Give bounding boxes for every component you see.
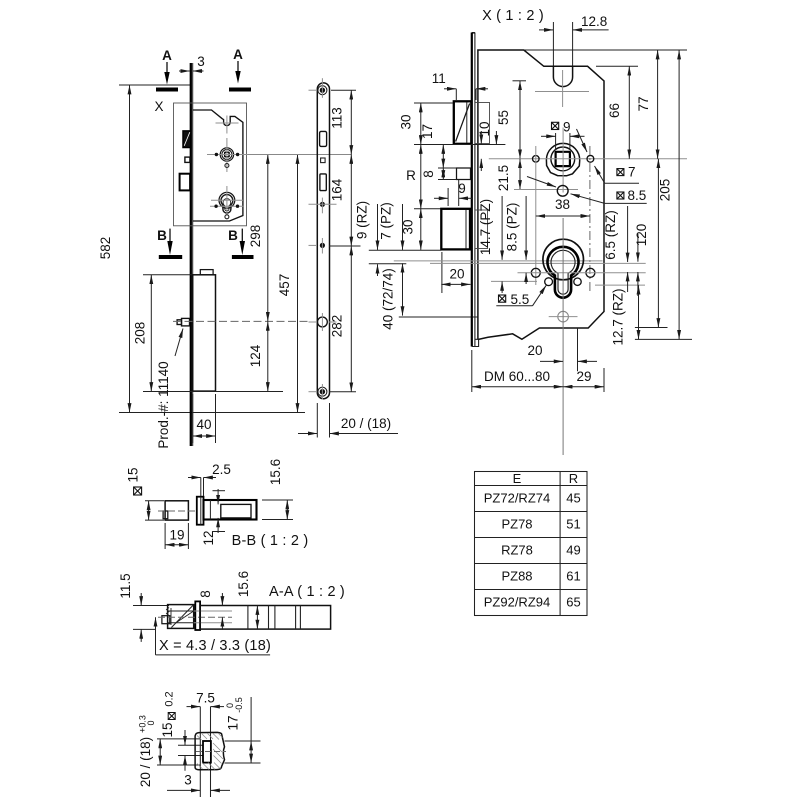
hub side dots [215,153,218,156]
cylinder ring [548,247,579,298]
svg-text:51: 51 [566,517,580,532]
cylinder crosshair [210,186,244,215]
dim 113 [330,90,352,154]
svg-text:20: 20 [449,267,464,282]
cylinder euro profile outer [543,239,584,280]
svg-text:15.6: 15.6 [236,571,251,597]
svg-text:30: 30 [401,219,416,234]
bottom extension line of rod [143,391,283,393]
svg-text:R: R [569,471,578,486]
svg-text:A: A [162,48,172,63]
dim 19 [165,523,188,549]
dim 55 [496,81,526,159]
flange A-A [195,601,200,630]
svg-text:208: 208 [133,322,148,345]
svg-text:B: B [228,228,238,243]
svg-text:8.5: 8.5 [628,188,647,203]
svg-text:9: 9 [563,120,571,135]
follower hole in section [221,504,251,518]
dim 30 upper [399,103,454,145]
dim 2.5 [188,462,231,496]
extension line bottom hole [329,391,356,393]
left screw centerline [535,146,537,285]
svg-text:3: 3 [184,773,192,788]
bottom screw hole [318,387,327,396]
svg-text:298: 298 [248,225,263,248]
svg-text:0: 0 [146,720,156,725]
hidden lines right of latch [194,610,232,612]
dim 40 [193,417,216,436]
svg-text:E: E [513,471,522,486]
dim 9 small [434,180,472,207]
X = 4.3 / 3.3 (18) callout [156,617,272,655]
dim 124 [248,321,268,391]
latch pocket behind plate [475,103,490,144]
svg-text:PZ88: PZ88 [501,569,532,584]
lock case outline (X view) [478,50,604,340]
dim 12.8 [539,14,609,66]
deadbolt pocket behind plate [475,210,488,249]
dim 12.7 (RZ) [611,285,639,345]
svg-text:77: 77 [636,96,651,111]
small hole below hub [557,185,568,196]
section label A right [229,47,251,90]
dim 17 [420,124,443,168]
svg-text:61: 61 [566,569,580,584]
svg-text:DM 60...80: DM 60...80 [484,369,550,384]
svg-text:Prod.-#: 11140: Prod.-#: 11140 [156,361,171,448]
dim 208 extension top [143,274,192,276]
svg-text:49: 49 [566,543,580,558]
rod top tab [200,270,213,275]
latch bottom extension right [414,144,505,146]
svg-text:8: 8 [198,590,213,598]
dim 3 bottom [167,773,230,791]
svg-text:RZ78: RZ78 [501,543,533,558]
profile groove bold [203,741,211,763]
dim phi8.5 label [571,188,647,204]
hub axis line linking views [248,154,352,156]
extension line mid dot [329,245,361,247]
faceplate edge bold line [190,63,192,446]
svg-text:7.5: 7.5 [196,691,215,706]
dim 21.5 [496,159,578,191]
dim 3 faceplate thickness [179,54,205,71]
deadbolt slot [320,174,326,191]
svg-text:PZ72/RZ74: PZ72/RZ74 [484,491,550,506]
svg-text:19: 19 [169,528,184,543]
dim 6.5 (RZ) [603,206,638,296]
cylinder knob body [165,501,188,520]
auxiliary rod box [193,275,216,391]
dim arrow onto hub axis [495,131,497,145]
svg-text:113: 113 [330,107,345,129]
dim 582 [98,85,130,413]
profile centerline dashed [196,751,226,753]
dashed centerline A-A [158,616,232,618]
screw hole dot 1 [320,202,325,207]
cylinder keyhole inner [551,250,575,294]
profile hatching [197,734,223,770]
svg-text:8.5 (PZ): 8.5 (PZ) [505,203,520,252]
svg-text:55: 55 [496,110,511,125]
faceplate bottom end step [472,339,479,346]
faceplate back thin line [192,63,194,446]
top notch crosshair [216,116,239,134]
deadbolt bottom extension line left [369,249,442,251]
svg-text:X: X [154,99,163,114]
leader to pin from Prod number [175,329,183,357]
svg-text:A-A ( 1 : 2 ): A-A ( 1 : 2 ) [269,584,345,600]
svg-text:10: 10 [477,121,492,136]
case cross-section B-B [204,500,257,520]
faceplate strip outline [317,83,329,399]
dim 7.5 [187,691,225,707]
svg-text:2.5: 2.5 [212,462,231,477]
latch bolt (side, black) [183,131,191,148]
svg-text:PZ92/RZ94: PZ92/RZ94 [484,595,550,610]
dim phi7 label [595,164,640,183]
dim 282 [330,246,352,392]
dim 20 / (18) [298,403,398,438]
svg-text:457: 457 [277,274,292,297]
section label B left [157,228,182,257]
svg-text:X ( 1 : 2 ): X ( 1 : 2 ) [482,8,544,24]
svg-text:15: 15 [160,722,175,737]
dim 7 (PZ) [379,202,403,250]
extension line at 315.6 [399,316,478,318]
cylinder small holes phi5.5 [545,278,553,286]
svg-text:38: 38 [555,197,570,212]
svg-text:R: R [406,168,416,183]
dim 208 [133,275,152,392]
leader into small hole [527,177,556,188]
dim 8 A-A [198,590,222,630]
svg-text:9: 9 [458,181,466,196]
svg-text:-0.5: -0.5 [234,697,244,713]
svg-text:0.2: 0.2 [164,691,176,706]
cylinder screw holes [531,268,540,277]
svg-text:45: 45 [566,491,580,506]
svg-text:8: 8 [421,170,436,178]
svg-text:20: 20 [527,343,542,358]
svg-text:12.7 (RZ): 12.7 (RZ) [611,288,626,345]
dim 77 [636,50,658,159]
leader into hub right hole [577,129,588,152]
dim 12 [201,489,225,546]
dim 120 [634,159,668,328]
knob nub [163,511,168,519]
dim 14.7 (PZ) [478,196,502,293]
svg-text:11: 11 [432,71,446,86]
latch follower small block [162,616,170,624]
top pocket U notch [553,66,572,86]
dim 10 [477,121,492,171]
svg-text:11.5: 11.5 [118,573,133,598]
dim 11.5 [118,573,169,642]
hub crosshair [207,138,248,172]
svg-text:15: 15 [126,467,141,482]
small square opening [321,158,326,163]
dim 205 [635,50,692,339]
svg-text:120: 120 [634,224,649,247]
dim phi5.5 label [496,285,546,307]
svg-text:282: 282 [330,315,345,338]
svg-text:6.5 (RZ): 6.5 (RZ) [603,210,618,260]
dim 20 bottom [527,328,597,371]
svg-text:124: 124 [248,344,263,367]
lock case contour (side view) [193,110,243,221]
svg-text:12: 12 [201,530,216,545]
screw hole dot 2 [320,243,325,248]
deadbolt (X view) [441,209,470,250]
cylinder (side view) euro profile [219,192,235,213]
svg-text:582: 582 [98,237,113,260]
svg-text:21.5: 21.5 [496,165,511,191]
svg-text:65: 65 [566,595,580,610]
hub axis crosshair [489,158,687,160]
svg-text:66: 66 [607,103,622,118]
cylinder side dots [214,205,217,208]
dim 40 extensions [192,394,194,443]
svg-text:B-B ( 1 : 2 ): B-B ( 1 : 2 ) [232,533,309,549]
cylinder axis gray lines [394,260,603,262]
top edge extension line to right [524,49,687,51]
faceplate cross (X view) bold [471,33,473,347]
handle hub (X view) [546,143,579,175]
open hole on axis [318,317,328,327]
dim 9 (RZ) [355,201,378,276]
svg-text:PZ78: PZ78 [501,517,532,532]
dim 38 [536,197,590,216]
pocket crosshair [535,70,589,107]
flange cross-section [197,497,204,525]
svg-text:14.7 (PZ): 14.7 (PZ) [478,199,493,255]
svg-text:15.6: 15.6 [268,459,283,485]
svg-text:30: 30 [399,114,414,129]
svg-text:20 / (18): 20 / (18) [341,416,391,431]
latch bolt (X view) [454,101,472,144]
small holes axis line [491,280,537,282]
svg-text:9 (RZ): 9 (RZ) [355,201,370,239]
svg-text:17: 17 [226,715,241,730]
section label B right [228,228,253,257]
dim 20 / (18) +0.3/0 rotated [138,715,201,787]
cylinder vertical centerline [562,218,564,455]
latch opening slot [320,131,327,146]
svg-text:20 / (18): 20 / (18) [138,737,153,787]
dim 15 +-0.2 rotated [160,691,203,770]
svg-text:7: 7 [628,164,636,179]
dim 15.6 A-A [236,571,257,629]
dim 20 deadbolt throw [441,252,470,293]
svg-text:12.8: 12.8 [581,14,607,29]
svg-text:5.5: 5.5 [511,292,530,307]
svg-text:164: 164 [330,178,345,201]
dim phi15 rotated [126,467,164,520]
knob centerline dashed [158,510,196,512]
dashed center axis [173,320,310,322]
dim 17 0/-0.5 rotated [225,697,261,763]
outer box of detail X region [174,103,247,226]
dim 457 [277,155,298,413]
dim R [406,145,421,209]
long bar A-A [200,606,331,630]
dim 30 lower [401,209,442,250]
right screw centerline dash-dot [589,146,591,292]
svg-text:3: 3 [197,54,205,69]
dim DM 60...80 [472,350,563,392]
lower hole below cylinder [558,311,569,322]
small hole below cylinder [225,215,229,219]
svg-text:17: 17 [420,124,435,139]
dim 298 [248,155,268,322]
dim 40 (72/74) [381,263,403,329]
latch body A-A [167,605,194,629]
dim 8.5 (PZ) [505,196,527,284]
svg-text:B: B [157,228,167,243]
svg-text:40: 40 [196,417,211,432]
svg-text:A: A [233,47,243,62]
dim 164 [330,155,352,247]
dim 66 [596,66,638,159]
deadbolt (side) [180,174,191,191]
dim 8 [421,168,443,180]
svg-text:205: 205 [658,179,673,202]
svg-text:40 (72/74): 40 (72/74) [381,268,396,330]
top extension line [119,84,191,86]
svg-text:X = 4.3 / 3.3 (18): X = 4.3 / 3.3 (18) [159,638,271,654]
trigger pin on plate [177,318,189,326]
auxiliary latch small [185,157,190,162]
handle hub (side view) [220,148,233,161]
extension line top hole [331,89,356,91]
hub screw holes [533,156,540,163]
screw axis line [518,272,646,274]
dim square 9 [541,120,585,151]
faceplate faces vertical lines [199,707,201,797]
svg-text:29: 29 [576,369,591,384]
aux latch extensions [438,167,457,169]
bottom baseline extension [119,412,305,414]
small hole below hub [225,164,229,168]
top screw hole [318,86,327,95]
dim 29 [563,368,604,392]
dim 15.6 B-B [262,459,293,520]
section label A left [156,48,178,90]
profile blob [195,732,224,769]
auxiliary latch box (X view) [457,168,471,180]
svg-text:7 (PZ): 7 (PZ) [379,202,394,240]
dim 11 [432,71,488,100]
